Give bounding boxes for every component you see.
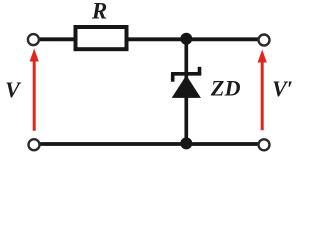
zener cathode bar bbox=[171, 72, 201, 76]
wire bottom rail bbox=[36, 142, 260, 146]
svg-text:V: V bbox=[5, 77, 22, 102]
svg-text:R: R bbox=[91, 0, 107, 23]
zener bar right tick bbox=[198, 67, 202, 74]
voltage arrow V (input) bbox=[30, 49, 39, 131]
terminal top-left bbox=[28, 34, 39, 45]
zener anode triangle bbox=[172, 75, 201, 98]
zener diode ZD bbox=[171, 67, 201, 98]
node top junction bbox=[180, 33, 192, 45]
wire zener branch bbox=[184, 39, 188, 144]
terminal top-right bbox=[259, 35, 270, 46]
zener bar left tick bbox=[171, 74, 175, 82]
wire top rail bbox=[36, 37, 260, 41]
terminal bottom-left bbox=[29, 139, 40, 150]
node bottom junction bbox=[180, 137, 192, 149]
svg-text:ZD: ZD bbox=[210, 75, 241, 100]
terminal bottom-right bbox=[259, 139, 270, 150]
svg-text:V′: V′ bbox=[272, 76, 293, 101]
resistor R bbox=[76, 27, 127, 49]
voltage arrow V' (output) bbox=[258, 50, 267, 131]
